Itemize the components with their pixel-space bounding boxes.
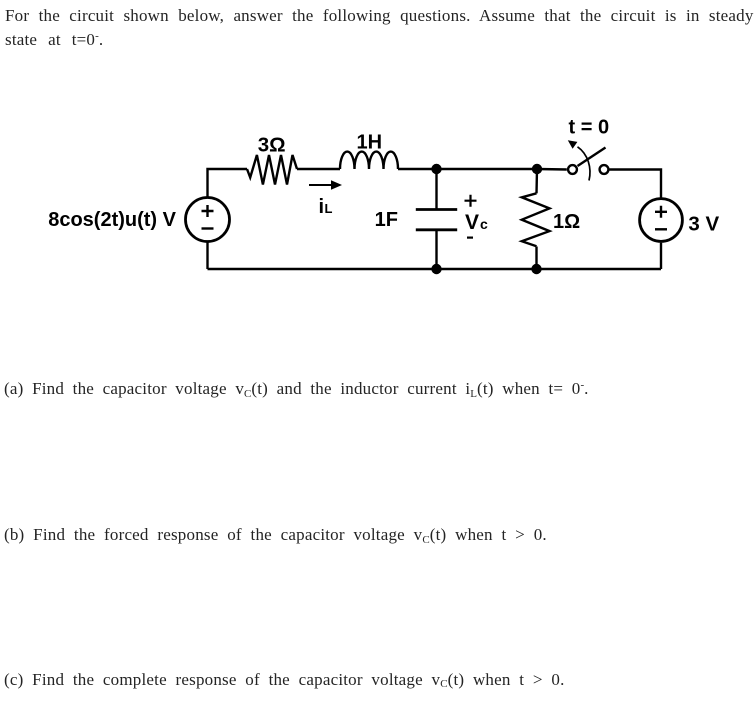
Vc plus sign — [465, 195, 477, 207]
bottom wire — [208, 268, 662, 270]
source bottom lead — [206, 243, 208, 270]
capacitor top plate — [416, 208, 457, 211]
3V plus sign — [655, 206, 667, 218]
question (c) — [4, 671, 565, 691]
current label iL — [319, 196, 333, 218]
wire resistor to inductor — [297, 168, 340, 170]
value label 3 ohm — [258, 134, 286, 157]
voltage source 8cos(2t)u(t) circle — [186, 198, 230, 242]
node A (top capacitor node) — [431, 164, 441, 174]
node C (bottom capacitor node) — [431, 264, 441, 274]
source plus sign — [202, 205, 214, 217]
svg-text:1H: 1H — [357, 132, 383, 154]
resistor R=3ohm — [247, 155, 297, 185]
capacitor bottom lead — [435, 231, 437, 270]
node B (top resistor/switch node) — [532, 164, 542, 174]
voltage source 3V circle — [640, 199, 683, 242]
wire node A to node B — [437, 168, 538, 170]
3V label — [688, 213, 719, 236]
question (a) — [4, 380, 589, 400]
resistor 1 ohm top lead — [535, 169, 538, 193]
source label 8cos(2t)u(t) V — [48, 209, 176, 231]
switch left contact — [568, 165, 577, 174]
Vc minus sign — [467, 237, 473, 239]
capacitor C=1F top lead — [435, 169, 437, 209]
circuit schematic — [0, 0, 756, 330]
value label 1 ohm — [553, 211, 580, 233]
svg-text:3 V: 3 V — [688, 213, 719, 236]
problem statement line 2 — [5, 31, 103, 51]
value label 1H — [357, 132, 383, 154]
svg-text:8cos(2t)u(t) V: 8cos(2t)u(t) V — [48, 209, 176, 231]
switch motion arc — [568, 140, 590, 180]
resistor R=1ohm (vertical) — [522, 193, 550, 246]
switch blade — [578, 148, 606, 167]
Vc label — [465, 211, 488, 234]
inductor L=1H — [340, 152, 398, 169]
source minus sign — [202, 227, 214, 229]
svg-text:3Ω: 3Ω — [258, 134, 286, 157]
resistor 1 ohm bottom lead — [535, 247, 537, 270]
current arrow iL — [309, 180, 342, 190]
switch right contact — [600, 165, 609, 174]
value label 1F — [375, 209, 398, 231]
svg-text:i: i — [319, 196, 325, 218]
wire node B to switch left contact — [537, 168, 567, 171]
svg-text:L: L — [325, 201, 333, 216]
question (b) — [4, 526, 547, 546]
3V source bottom lead — [660, 243, 662, 269]
svg-text:c: c — [480, 216, 488, 232]
svg-text:t = 0: t = 0 — [569, 117, 610, 139]
node D (bottom resistor node) — [531, 264, 541, 274]
3V minus sign — [655, 228, 667, 230]
svg-text:V: V — [465, 211, 479, 234]
problem statement line 1 — [5, 7, 754, 24]
switch label t = 0 — [569, 117, 610, 139]
wire top-left segment (source to resistor) — [208, 169, 248, 197]
svg-text:1Ω: 1Ω — [553, 211, 580, 233]
wire inductor to node A — [398, 168, 437, 170]
wire switch to right branch — [609, 170, 661, 198]
svg-text:1F: 1F — [375, 209, 398, 231]
capacitor bottom plate — [416, 228, 457, 231]
